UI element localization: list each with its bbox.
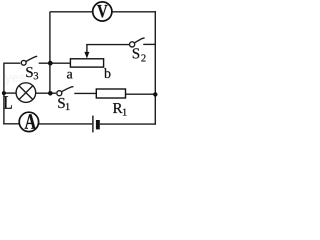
wire bottom left <box>3 123 20 125</box>
node lamp-left junction dot <box>2 91 6 95</box>
switch S3 <box>21 56 37 65</box>
wire R1 right <box>125 93 156 95</box>
wire wiper to S2 <box>86 44 129 46</box>
wire S1 to R1 <box>74 92 96 94</box>
label S3-S <box>26 67 32 77</box>
wire right vertical <box>154 11 156 125</box>
wire top right <box>112 11 156 13</box>
label S1-S <box>58 98 64 108</box>
switch S2 <box>130 38 145 47</box>
label L <box>4 96 12 108</box>
label S1-1 <box>66 103 70 110</box>
label S2-2 <box>141 54 145 61</box>
label b <box>104 68 110 78</box>
node R1-right junction dot <box>153 92 157 96</box>
node B junction dot <box>48 91 53 96</box>
rheostat wiper arrow <box>84 52 89 59</box>
wire node A vertical <box>49 12 51 94</box>
wire bottom right <box>100 123 156 125</box>
wire left vertical <box>3 63 5 125</box>
label a <box>67 72 73 79</box>
label R1-1 <box>123 109 127 116</box>
resistor R1 <box>96 89 125 98</box>
switch S1 <box>57 87 74 96</box>
voltmeter U-V <box>93 2 112 21</box>
battery cell <box>93 116 100 133</box>
label R1-R <box>113 103 123 113</box>
ammeter U-A <box>19 112 38 131</box>
wire bottom middle <box>39 123 93 125</box>
label S3-3 <box>34 72 38 79</box>
wire lamp left <box>4 92 16 94</box>
rheostat (potentiometer) <box>70 59 103 67</box>
wire S3 to node A <box>39 62 71 64</box>
label S2-S <box>133 48 139 58</box>
node A junction dot <box>48 61 53 66</box>
lamp L <box>16 83 36 103</box>
label A <box>25 114 36 129</box>
wire top left <box>50 11 93 13</box>
label V <box>97 5 107 17</box>
wire wiper vertical <box>86 45 88 54</box>
wire S2 right <box>143 43 156 45</box>
wire S3 branch left <box>4 62 20 64</box>
wire lamp to node B <box>36 92 56 94</box>
